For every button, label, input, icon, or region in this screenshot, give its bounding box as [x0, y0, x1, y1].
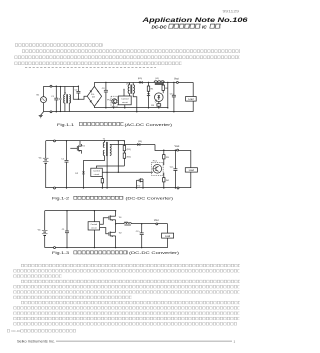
- svg-text:(R1): (R1): [127, 149, 131, 151]
- svg-text:Fig.1-2: Fig.1-2: [52, 197, 69, 201]
- wire secondary to bridge: [73, 86, 87, 99]
- load RL: [186, 97, 197, 102]
- svg-text:Vin: Vin: [39, 158, 43, 160]
- capacitor C3: [104, 82, 108, 109]
- svg-text:C1: C1: [62, 229, 66, 231]
- load RL: [162, 233, 174, 238]
- svg-text:Control: Control: [93, 170, 100, 173]
- wire gate drive Tr2: [100, 228, 109, 234]
- resistor R5: [101, 177, 103, 189]
- transistor Tr1 switch: [70, 141, 81, 154]
- photocoupler PC1 output side: [155, 93, 164, 103]
- svg-text:Tr1: Tr1: [119, 216, 123, 219]
- wire feedback vertical: [167, 82, 168, 109]
- svg-text:Tr1: Tr1: [82, 144, 86, 147]
- svg-text:PC1: PC1: [153, 160, 158, 162]
- svg-text:PC1: PC1: [107, 99, 112, 101]
- terminal bottom: [54, 187, 56, 189]
- svg-text:(DC-DC Converter): (DC-DC Converter): [126, 197, 174, 201]
- svg-text:(AC-DC Converter): (AC-DC Converter): [125, 123, 173, 127]
- svg-text:Vout: Vout: [175, 145, 180, 148]
- battery V1: [42, 211, 48, 248]
- resistor R3: [163, 149, 165, 165]
- svg-text:(L1): (L1): [124, 221, 128, 223]
- diode D2: [82, 171, 84, 188]
- svg-text:Seiko Instruments Inc.: Seiko Instruments Inc.: [17, 339, 55, 343]
- terminal top: [54, 140, 56, 142]
- svg-text:(DC-DC Converter): (DC-DC Converter): [129, 251, 179, 255]
- wire bottom rail: [45, 247, 168, 249]
- terminal Vout: [177, 149, 179, 151]
- wire bottom rail: [44, 111, 194, 113]
- terminal Vout: [156, 223, 158, 225]
- transformer T1: [64, 86, 71, 112]
- svg-text:R1: R1: [151, 89, 155, 91]
- capacitor C2: [140, 223, 144, 248]
- resistor R2: [162, 82, 164, 93]
- caption Fig.1-3: [52, 251, 179, 256]
- wire top rail: [45, 210, 116, 212]
- wire input top rail: [44, 86, 79, 88]
- svg-text:Tr2: Tr2: [137, 184, 141, 187]
- transformer T2: [128, 82, 137, 112]
- capacitor C2: [173, 149, 177, 188]
- svg-text:Application Note No.106: Application Note No.106: [141, 17, 248, 24]
- caption Fig.1-2: [52, 196, 173, 201]
- svg-text:D2: D2: [75, 173, 79, 175]
- battery V1: [43, 141, 49, 188]
- svg-text:(R2): (R2): [127, 157, 131, 159]
- diode D5: [139, 81, 143, 84]
- svg-text:(L1): (L1): [155, 78, 159, 80]
- svg-text:(D1): (D1): [138, 141, 142, 143]
- wire top rail primary: [46, 140, 125, 142]
- svg-text:Vin: Vin: [36, 94, 40, 96]
- control circuit U1: [88, 210, 100, 248]
- bridge rectifier D1-D4: [87, 86, 101, 106]
- svg-text:Vin: Vin: [38, 230, 42, 232]
- diode D1: [110, 143, 155, 146]
- svg-text:Load: Load: [165, 236, 171, 238]
- terminal bottom output: [177, 187, 179, 189]
- caption Fig.1-1: [57, 122, 172, 127]
- photocoupler PC1: [152, 162, 164, 175]
- svg-text:R3: R3: [166, 157, 170, 159]
- capacitor C1: [65, 210, 69, 248]
- svg-text:Control: Control: [90, 223, 97, 226]
- svg-text:circuit: circuit: [91, 226, 97, 229]
- svg-text:(T2): (T2): [126, 83, 130, 85]
- AC source V1: [41, 86, 47, 112]
- svg-text:Fig.1-1: Fig.1-1: [57, 123, 74, 127]
- control circuit U1: [118, 96, 131, 109]
- svg-text:Tr2: Tr2: [119, 232, 123, 235]
- svg-text:Vout: Vout: [154, 219, 159, 222]
- wire inner bottom rail: [94, 107, 167, 109]
- resistors R1 R2 feedback: [97, 140, 126, 168]
- wire gate drive Tr1: [100, 218, 109, 225]
- resistor R3: [157, 102, 161, 109]
- svg-text:C3: C3: [102, 88, 106, 90]
- resistor R1: [147, 82, 149, 93]
- wire bridge top to DC rail: [93, 82, 95, 86]
- drive arrow: [123, 88, 124, 96]
- wire output right side: [167, 224, 169, 248]
- wire parallel branch: [60, 86, 62, 112]
- wire bottom rail: [46, 187, 191, 189]
- capacitor C2: [76, 86, 80, 100]
- resistor R4: [163, 173, 165, 189]
- svg-text:(D5): (D5): [138, 78, 142, 80]
- wire bridge bottom: [93, 106, 95, 108]
- transistor Tr1: [109, 210, 116, 224]
- inductor L1: [154, 81, 164, 85]
- wire aux winding to diode: [84, 156, 105, 172]
- svg-text:R3: R3: [151, 105, 155, 107]
- svg-text:DC-DC: DC-DC: [152, 24, 168, 29]
- ground: [39, 112, 44, 118]
- load RL: [185, 168, 197, 172]
- footer: [17, 339, 236, 343]
- control circuit U1: [91, 168, 103, 176]
- capacitor C1: [54, 86, 58, 113]
- svg-text:Vout: Vout: [174, 78, 179, 81]
- svg-text:DC-DC: DC-DC: [12, 329, 22, 333]
- svg-text:1: 1: [234, 340, 236, 344]
- svg-text:D4: D4: [92, 97, 96, 99]
- svg-text:Load: Load: [188, 99, 194, 101]
- subtitle DC-DC (tofu) IC (tofu): [152, 24, 222, 30]
- svg-text:R4: R4: [166, 180, 170, 182]
- zener diode D6: [147, 93, 150, 109]
- svg-text:C1: C1: [51, 96, 55, 98]
- capacitor C1: [65, 140, 69, 188]
- svg-text:circuit: circuit: [94, 173, 100, 176]
- transistor Tr2 sync rectifier: [136, 178, 144, 188]
- terminal bottom input: [54, 247, 56, 249]
- paragraph 1 tofu text lines: [15, 43, 241, 65]
- svg-text:C1: C1: [61, 158, 65, 160]
- paragraph 2 tofu text lines: [7, 264, 240, 333]
- svg-text:circuit: circuit: [122, 101, 128, 104]
- wire output right side: [190, 150, 192, 188]
- svg-text:T1: T1: [64, 92, 67, 94]
- svg-text:C2+: C2+: [170, 167, 175, 169]
- transformer T1: [103, 140, 111, 188]
- wire secondary top rail: [155, 145, 191, 151]
- svg-text:Control: Control: [121, 98, 129, 101]
- photocoupler PC1 primary side: [111, 96, 118, 108]
- dashed separator line: [25, 67, 156, 69]
- svg-text:IC: IC: [202, 24, 207, 29]
- wire DC top rail: [94, 82, 193, 84]
- svg-text:Load: Load: [189, 170, 195, 172]
- terminal top input: [50, 85, 52, 87]
- transistor Tr2: [109, 223, 116, 248]
- wire output right side: [192, 82, 194, 111]
- terminal bottom input: [50, 111, 52, 113]
- inductor L1: [116, 223, 168, 225]
- svg-text:991129: 991129: [223, 9, 240, 13]
- svg-text:Fig.1-3: Fig.1-3: [52, 251, 69, 255]
- wire control to node: [102, 140, 153, 173]
- terminal Vout: [176, 81, 178, 83]
- capacitor C5: [172, 82, 176, 113]
